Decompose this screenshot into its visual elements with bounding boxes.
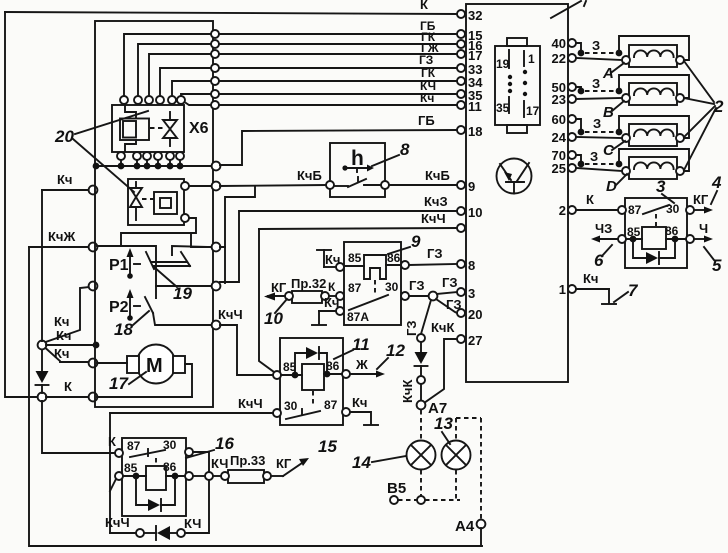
svg-text:3: 3 (656, 177, 666, 196)
pressure switch P1 contact blade (146, 252, 154, 269)
ignition coil C pins (622, 134, 684, 142)
wire GZ relay9-86 to pin 8 (409, 264, 457, 265)
relay 16 coil (146, 458, 166, 490)
svg-text:В5: В5 (387, 480, 406, 497)
X6 top pins (120, 96, 185, 104)
pointer line 14 (372, 456, 406, 462)
relay 20 upper pin (181, 182, 189, 190)
wire K down to relay 16 pin 87 (42, 401, 115, 453)
svg-text:10: 10 (468, 205, 482, 220)
svg-text:h: h (351, 147, 364, 170)
relay 16 pin 86 (185, 472, 193, 480)
relay 11 internal coil wires (281, 374, 342, 375)
pointer line 20 to X6 internals (75, 111, 148, 134)
wire ChZ arrow from relay 3 pin 85 (591, 221, 618, 243)
svg-text:КчЧ: КчЧ (105, 515, 130, 530)
svg-text:Кч: Кч (324, 295, 339, 310)
wire pin 22 to coil A (576, 58, 622, 60)
svg-text:87А: 87А (347, 310, 369, 324)
pointer line A (612, 63, 624, 72)
ignition coil row B hook from pin 50 (576, 76, 622, 94)
wire X6 pin4 loop to edge terminal y68 (160, 68, 211, 96)
wire GB terminal to pin 18 (220, 130, 457, 165)
ignition coil A pins (622, 56, 684, 64)
svg-text:20: 20 (54, 127, 74, 146)
svg-text:25: 25 (552, 161, 566, 176)
diode VD left (36, 349, 49, 393)
relay 11 body (280, 338, 343, 425)
svg-text:КчЧ: КчЧ (238, 396, 263, 411)
pointer line 18 (133, 311, 149, 325)
svg-text:К: К (420, 0, 428, 12)
unit edge terminals column (211, 30, 219, 109)
wire HV fan C to node 2 (684, 106, 715, 137)
svg-text:С: С (603, 142, 615, 159)
svg-text:30: 30 (385, 280, 399, 294)
svg-text:З: З (593, 116, 601, 131)
svg-text:М: М (146, 355, 163, 377)
relay 16 pin labels (124, 438, 177, 475)
relay 11 pin 30 (273, 409, 281, 417)
svg-text:23: 23 (552, 92, 566, 107)
relay 16 pin 85 (115, 472, 123, 480)
pointer line item 1 (551, 1, 581, 18)
svg-text:З: З (592, 38, 600, 53)
relay 9 pin 30 (401, 292, 409, 300)
wire K to motor box (46, 396, 89, 398)
wire X6 pin2 loop to edge terminal y44 (138, 44, 211, 96)
node terminal 286 on unit edge (212, 282, 221, 291)
wire HV fan A to node 2 (684, 61, 714, 102)
svg-text:7: 7 (628, 281, 639, 300)
node GZ junction (429, 292, 438, 301)
wire GB to pin 15 (219, 33, 457, 35)
svg-text:ГБ: ГБ (418, 113, 435, 128)
control unit right pins (568, 39, 576, 293)
wire bottom KchCh row left (110, 532, 136, 534)
svg-text:18: 18 (468, 124, 482, 139)
relay 16 contact blade (130, 449, 165, 457)
wire P2 blade to terminal 325 (153, 313, 211, 325)
motor M17 body (127, 345, 185, 384)
svg-text:КГ: КГ (276, 456, 292, 471)
relay 11 junction dots (292, 371, 331, 379)
fuse Pr32 (285, 276, 329, 303)
svg-text:14: 14 (352, 453, 371, 472)
node K on unit edge (89, 393, 98, 402)
pointer line C (612, 141, 625, 150)
svg-text:Р1: Р1 (109, 257, 129, 274)
wire pin 23 to coil B (576, 98, 622, 99)
svg-text:КчЧ: КчЧ (218, 307, 243, 322)
svg-text:Кч: Кч (54, 346, 69, 361)
relay 3 pin 85 (618, 235, 626, 243)
P1 second contact blade (181, 252, 190, 266)
ignition coil C body (629, 124, 677, 146)
wire motor left lead (97, 362, 127, 364)
dashed link inside X6 (150, 127, 163, 129)
wire GZ junction to pin 3 (437, 292, 457, 294)
node K junction lower-left (38, 393, 47, 402)
svg-text:КчК: КчК (431, 320, 454, 335)
ignition coil C outer loop (619, 116, 689, 138)
wire GK to pin 16 (219, 43, 457, 45)
diode inside relay 16 (136, 479, 175, 511)
transistor symbol inside unit (497, 159, 532, 194)
control unit right pin numbers (552, 36, 567, 297)
svg-text:В: В (603, 104, 614, 121)
svg-text:КчБ: КчБ (425, 168, 450, 183)
node KchZh on unit edge (89, 243, 98, 252)
svg-text:17: 17 (468, 48, 482, 63)
block 8 right pin (381, 181, 389, 189)
X6 bottom pins (117, 152, 184, 160)
wire HV fan B to node 2 (684, 98, 714, 104)
wire Zh arrow from relay 11 pin 86 (350, 357, 385, 378)
wire relay20 lower pin elbow to x121 (121, 218, 196, 246)
svg-text:20: 20 (468, 307, 482, 322)
svg-text:ГК: ГК (421, 66, 436, 80)
pointer line 20 to relay internals (73, 139, 134, 192)
svg-text:ЧЗ: ЧЗ (595, 221, 612, 236)
junction dot Kch on unit edge (93, 342, 100, 349)
wire KG arrow from relay 3 pin 30 (693, 192, 713, 214)
svg-text:К: К (328, 280, 336, 294)
ignition coil D outer loop (619, 149, 689, 171)
ignition coil row A hook from pin 40 (576, 38, 622, 56)
pointer line 19 (154, 267, 177, 287)
ignition coil D body (629, 157, 677, 179)
wire diode node to A7 (420, 384, 422, 401)
pointer line 4 (711, 191, 717, 204)
ignition coil B outer loop (619, 75, 689, 98)
svg-text:З: З (592, 76, 600, 91)
relay 16 pin 87 (115, 449, 123, 457)
svg-text:Кч: Кч (420, 91, 434, 105)
connector symbol inside unit (495, 38, 540, 133)
svg-text:Ч: Ч (699, 221, 708, 236)
switch contact inside block 8 (334, 179, 381, 187)
svg-text:10: 10 (264, 309, 283, 328)
svg-text:24: 24 (552, 130, 567, 145)
svg-text:4: 4 (711, 173, 722, 192)
svg-text:87: 87 (324, 398, 338, 412)
ignition coil B body (629, 83, 677, 105)
wire X6 pin5 loop to edge terminal y81 (172, 81, 211, 96)
wire relay16-86 to junction (193, 475, 205, 477)
node Kch junction left (38, 341, 47, 350)
svg-text:К: К (108, 434, 116, 449)
wire Kch vertical from top terminal (41, 190, 43, 341)
ignition coil A body (629, 45, 677, 67)
relay 3 pin labels (627, 202, 680, 239)
connector X6 body (112, 105, 184, 152)
wire junction to fuse33 (213, 475, 221, 477)
relay 11 pin 87 (342, 408, 350, 416)
pointer line 16 (186, 450, 214, 458)
relay 3 pin 30 (686, 206, 694, 214)
terminal bar Kch below relay 9 (312, 295, 339, 325)
relay 3 pin 86 (686, 235, 694, 243)
diode inside relay 3 (633, 242, 675, 264)
wire Kch branch down to motor terminal (46, 348, 90, 362)
pointer line 10 (275, 299, 287, 313)
svg-text:12: 12 (386, 341, 405, 360)
svg-text:11: 11 (468, 99, 482, 114)
wire bottom row to x209 vertical and relay16-30 (185, 452, 209, 533)
wire relay16 85 diagonal to x110 (110, 479, 116, 491)
svg-text:11: 11 (352, 335, 370, 354)
svg-text:Х6: Х6 (189, 120, 209, 137)
arrow KG left of fuse32 (264, 280, 287, 301)
pointer line 17 (129, 372, 146, 384)
wire KchCh vertical x110 down (109, 413, 111, 533)
relay 11 pin labels (283, 359, 340, 413)
relay 3 contact blade (643, 205, 669, 226)
wire fuse32 to relay9-87 (329, 295, 336, 297)
relay 11 coil (302, 364, 324, 407)
bracket over P1 left with drop to y286 (97, 246, 156, 298)
node above diode KchK (417, 334, 425, 342)
wire relay9-30 to GZ junction (409, 295, 428, 297)
pointer line 9 (388, 247, 410, 254)
svg-text:КЧ: КЧ (184, 516, 201, 531)
node Kch P2 terminal (89, 282, 98, 291)
node Kch on unit edge (89, 186, 98, 195)
wire X6 pin3 loop to edge terminal y54 (149, 54, 211, 96)
terminal bar Kch above relay 9 (317, 250, 340, 267)
node B5 (390, 496, 398, 504)
svg-text:КчЗ: КчЗ (424, 194, 448, 209)
wire Kch branch to unit edge dot (46, 344, 93, 346)
svg-text:КГ: КГ (271, 280, 287, 295)
node terminal KchCh on unit edge (212, 321, 221, 330)
wire K inside unit (97, 396, 192, 398)
pointer line 5 (704, 247, 714, 260)
relay 9 body (344, 242, 401, 325)
svg-text:87: 87 (127, 439, 141, 453)
ignition coil row C hook from pin 60 (576, 116, 622, 135)
svg-text:Ж: Ж (355, 357, 368, 372)
svg-text:КГ: КГ (693, 192, 709, 207)
pressure switch P2 contact blade (145, 297, 153, 313)
svg-text:18: 18 (114, 320, 133, 339)
ignition coil A outer loop (619, 36, 689, 60)
relay 3 internal coil wires (626, 238, 686, 240)
svg-text:86: 86 (665, 224, 679, 238)
svg-text:ГЗ: ГЗ (404, 320, 419, 336)
bracket over P1 right (172, 246, 211, 255)
svg-text:32: 32 (468, 8, 482, 23)
wire Kch to unit edge terminal top (42, 189, 89, 191)
svg-text:17: 17 (526, 104, 540, 118)
svg-text:1: 1 (528, 52, 535, 66)
node KCh bottom right (177, 529, 185, 537)
wire KchB from terminal 186 to h-switch (220, 185, 326, 186)
wire motor right lead loop (185, 364, 192, 397)
pointer line 6 (602, 245, 612, 256)
wire A4 to bottom frame (480, 528, 482, 546)
wire Ch arrow from relay 3 pin 86 (694, 221, 713, 243)
pressure switch P2 actuator arrow (127, 289, 141, 321)
svg-text:35: 35 (496, 101, 510, 115)
wire GZ to pin 33 (219, 67, 457, 69)
pointer line 8 (372, 155, 399, 166)
svg-text:8: 8 (400, 140, 410, 159)
svg-text:30: 30 (284, 399, 298, 413)
svg-text:А: А (602, 65, 614, 82)
wire KchCh to block pin (259, 228, 457, 229)
dashed link inside relay 20 (142, 198, 154, 200)
control unit left pin numbers (468, 8, 483, 348)
wire Kch branch up to P-switch terminal (46, 287, 90, 342)
ignition coil row D hook from pin 70 (576, 149, 622, 167)
wire GZh to pin 17 (219, 53, 457, 55)
pointer line D (615, 174, 627, 186)
svg-text:К: К (586, 192, 594, 207)
dashed wire B5 link (398, 499, 417, 501)
wire GZ junction to pin 20 (436, 299, 457, 313)
node Kch motor terminal (89, 359, 98, 368)
relay 9 pin 87 (336, 292, 344, 300)
wire pin 25 to coil D (576, 168, 622, 171)
diode to A7 (415, 342, 428, 376)
svg-text:А4: А4 (455, 518, 475, 535)
svg-text:17: 17 (109, 374, 129, 393)
svg-text:15: 15 (318, 437, 337, 456)
wire staircase terminal 247 to KchB wire (220, 186, 255, 247)
node bus terminal on unit edge (212, 162, 221, 171)
wire K pin2 to relay 3 (576, 209, 618, 211)
dashed wire lamp14 bottom to B5 (420, 470, 422, 496)
pointer line 12 (377, 358, 388, 369)
wire KchCh relay11 pin30 to left bus (110, 412, 273, 414)
relay 11 contact blade (286, 409, 320, 419)
svg-text:87: 87 (628, 203, 642, 217)
wire X6 pin6 loop to edge terminal y94 (181, 94, 211, 96)
node KchCh bottom left (136, 529, 144, 537)
svg-text:ГЗ: ГЗ (419, 53, 433, 67)
svg-text:2: 2 (713, 97, 724, 116)
wire channel vertical x225 down to KchZ wire (224, 247, 226, 283)
zener pair inside relay 20 (130, 182, 142, 220)
wire KchZh from frame x29 to unit edge (29, 246, 89, 248)
node terminal 247 on unit edge (212, 243, 221, 252)
fuse Pr33 (221, 453, 271, 483)
svg-text:К: К (64, 379, 72, 394)
relay 3 coil (642, 227, 666, 249)
P1 contact rails to second contact (152, 262, 190, 266)
node lamp14 bottom (417, 496, 425, 504)
svg-text:КчБ: КчБ (297, 168, 322, 183)
wire tee to terminal 247 (191, 233, 211, 247)
wire pin 24 to coil C (576, 137, 622, 138)
wire X6 pin1 loop to edge terminal y34 (124, 34, 211, 96)
relay 20 standalone body (128, 179, 184, 225)
svg-text:40: 40 (552, 36, 566, 51)
node junction before fuse33 (205, 472, 213, 480)
pointer line 3 (662, 194, 674, 203)
relay 16 pin 30 (185, 448, 193, 456)
relay 16 junction dots (133, 473, 179, 480)
svg-text:Пр.32: Пр.32 (291, 276, 326, 291)
relay 16 internal coil wires (123, 475, 185, 477)
switch block 8 body (330, 143, 385, 197)
relay 11 pin 85 (273, 371, 281, 379)
wire KG arrow after fuse33 (271, 456, 309, 476)
wire K top frame to pin 32 (5, 12, 457, 14)
svg-text:КчК: КчК (400, 380, 415, 403)
lamp 14 (407, 441, 436, 470)
zener pair inside X6 (163, 112, 177, 146)
node KchB terminal on unit edge (212, 182, 221, 191)
svg-text:З: З (590, 149, 598, 164)
svg-text:Кч: Кч (352, 395, 367, 410)
wire KCh to pin 35 (219, 93, 457, 95)
diode bottom row pointing left (144, 526, 177, 540)
svg-text:8: 8 (468, 258, 475, 273)
svg-text:КчЧ: КчЧ (421, 211, 446, 226)
svg-text:3: 3 (468, 286, 475, 301)
pointer line 7 (614, 292, 628, 302)
wire Kch from pin 1 to switch 7 (576, 271, 616, 304)
svg-text:85: 85 (348, 251, 362, 265)
block 8 left pin (326, 181, 334, 189)
svg-text:9: 9 (411, 232, 421, 251)
wire relay20 upper pin to edge terminal (189, 185, 211, 187)
relay 16 body (122, 438, 186, 516)
relay 9 coil (364, 255, 386, 294)
svg-text:КчЖ: КчЖ (48, 229, 75, 244)
relay 9 pin labels (347, 251, 401, 324)
wire frame x29 vertical down to bottom (29, 247, 482, 546)
pointer line B (612, 101, 624, 111)
wire KchZ terminal 282 to pin 10 (220, 211, 457, 282)
relay 20 lower pin (181, 214, 189, 222)
relay 9 contact blade (349, 295, 388, 310)
relay 3 body (625, 198, 687, 268)
node A7 (417, 401, 426, 410)
svg-text:ГЗ: ГЗ (409, 278, 425, 293)
relay 9 internal coil wires (344, 265, 401, 266)
svg-text:16: 16 (215, 434, 234, 453)
control unit left pins (457, 10, 465, 343)
dashed wire A7 to lamp 14 (420, 410, 422, 440)
svg-text:Кч: Кч (325, 252, 340, 267)
unit box around X6 P1 P2 M (95, 21, 213, 407)
wire Kch terminal from relay 11 pin 87 (350, 395, 378, 425)
wire KchB to pin 9 (389, 184, 457, 186)
wire Kch to pin 11 (219, 104, 457, 106)
svg-text:19: 19 (496, 57, 510, 71)
pressure switch P1 actuator arrow (127, 248, 141, 279)
node A4 (477, 520, 486, 529)
svg-text:Пр.33: Пр.33 (230, 453, 265, 468)
relay coil inside X6 (120, 119, 149, 141)
svg-text:13: 13 (434, 414, 453, 433)
relay 3 pin 87 (618, 206, 626, 214)
relay 9 pin 87A (336, 307, 344, 315)
arrow indicator inside block 8 (342, 165, 374, 182)
X6 coil leads (125, 106, 136, 151)
svg-text:Кч: Кч (583, 271, 598, 286)
svg-text:2: 2 (559, 203, 566, 218)
svg-text:КЧ: КЧ (211, 456, 228, 471)
wire y286 to terminal 286 (156, 285, 211, 287)
wire left outer frame vertical (5, 12, 37, 397)
wire stub edge terminal y105 (186, 103, 211, 105)
relay 3 junction dots (630, 236, 679, 243)
